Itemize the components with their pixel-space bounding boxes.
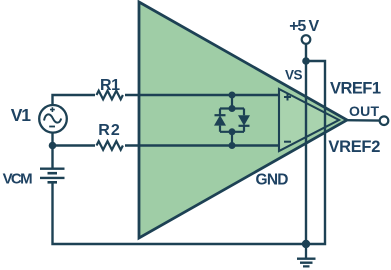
node: V1 / R2 / VCM junction bbox=[49, 142, 57, 150]
svg-text:V1: V1 bbox=[11, 105, 31, 125]
wire: VCM bottom to ground rail bbox=[53, 182, 307, 244]
svg-text:VREF1: VREF1 bbox=[330, 80, 381, 98]
wire: output bbox=[346, 119, 380, 122]
op-amp + input mark bbox=[284, 94, 291, 101]
node: clamp bottom rail bbox=[229, 128, 236, 135]
OUT terminal bbox=[380, 116, 389, 125]
svg-text:VS: VS bbox=[285, 68, 303, 83]
svg-text:+5 V: +5 V bbox=[289, 18, 319, 35]
node: supply junction bbox=[302, 57, 310, 65]
node: bottom wire / clamp bbox=[229, 142, 236, 149]
battery VCM bbox=[40, 167, 65, 169]
svg-text:R1: R1 bbox=[100, 77, 120, 94]
svg-text:GND: GND bbox=[256, 171, 289, 188]
ground bbox=[297, 244, 316, 266]
node: ground junction bbox=[302, 240, 310, 248]
svg-text:R2: R2 bbox=[98, 122, 120, 139]
svg-text:OUT: OUT bbox=[349, 103, 379, 119]
resistor R1 bbox=[95, 89, 125, 102]
svg-text:VREF2: VREF2 bbox=[328, 138, 380, 156]
diode clamp stub bottom bbox=[231, 132, 233, 146]
diode D2 (right, pointing down) bbox=[238, 115, 250, 126]
+5V terminal bbox=[302, 35, 311, 44]
node: clamp top rail bbox=[229, 105, 236, 112]
diode bridge rails bbox=[220, 109, 244, 132]
resistor R2 bbox=[95, 139, 125, 152]
node: top wire / clamp bbox=[229, 92, 236, 99]
svg-text:VCM: VCM bbox=[3, 170, 33, 187]
wire: +5V supply down to ground node (VS rail) bbox=[305, 44, 307, 244]
wire: V1 bottom stub bbox=[51, 133, 53, 168]
wire: VREF rail elbow bbox=[306, 61, 325, 244]
diode clamp stub top bbox=[231, 95, 233, 109]
op-amp - input mark bbox=[284, 141, 291, 143]
source V1 bbox=[39, 105, 67, 133]
V1 plus mark bbox=[50, 107, 55, 112]
op-amp U1 (inner triangle) bbox=[279, 89, 339, 151]
comparator body (big triangle) bbox=[139, 2, 347, 238]
V1 sine symbol bbox=[44, 114, 61, 122]
V1 minus mark bbox=[49, 126, 55, 128]
diode D1 (left, pointing up) bbox=[215, 114, 226, 116]
wire: node to R2 and - input bbox=[53, 144, 280, 146]
wire: V1 top to + input bbox=[53, 95, 280, 104]
